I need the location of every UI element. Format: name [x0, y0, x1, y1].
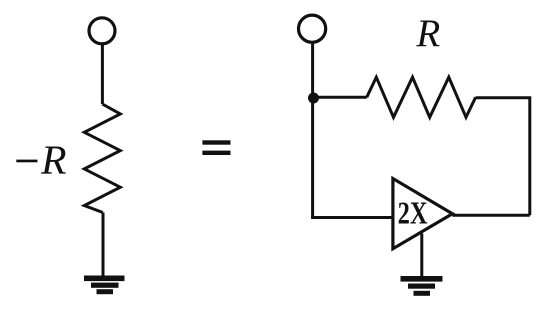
ground (left) [84, 276, 125, 295]
svg-text:R: R [40, 136, 66, 182]
wire T1 to resistor -R [101, 44, 104, 104]
wire node A to resistor R [313, 96, 367, 99]
resistor -R [84, 104, 120, 213]
op-amp U1 (2X buffer triangle) [393, 179, 453, 249]
resistor R [367, 77, 476, 117]
terminal T1 (left port) [89, 18, 115, 44]
equals sign [202, 140, 230, 155]
ground (right, under amp) [401, 276, 443, 296]
wire T2 down through node A to amp input level [311, 43, 314, 218]
wire amp bottom to ground [420, 234, 423, 277]
wire amp output to right rail [452, 214, 529, 217]
node A (junction dot) [308, 93, 319, 104]
wire resistor R to right rail, down to amp output [476, 98, 530, 216]
svg-text:2X: 2X [398, 197, 428, 232]
svg-text:R: R [415, 12, 440, 55]
label -R (value of left resistor) [16, 136, 66, 182]
terminal T2 (right port) [299, 15, 326, 42]
wire resistor -R to ground [102, 213, 105, 277]
wire left rail to amp input [311, 216, 393, 219]
